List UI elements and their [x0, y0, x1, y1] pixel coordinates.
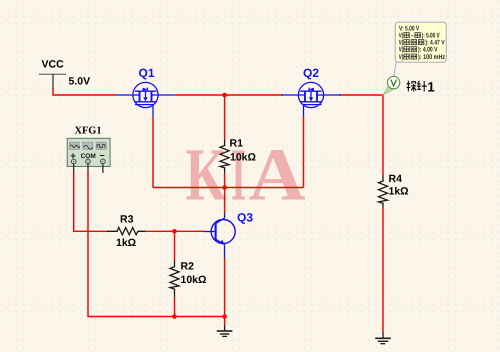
resistor R3 (horizontal) — [107, 228, 146, 235]
svg-text:5.0V: 5.0V — [69, 76, 91, 88]
svg-text:V(: V( — [399, 54, 404, 61]
junction dots — [172, 93, 227, 319]
power symbol VCC bar — [39, 73, 66, 75]
wire Q1 to Q2 — [176, 94, 283, 96]
node gate bus / R1 junction — [222, 185, 227, 190]
node emitter/ground junction — [222, 314, 227, 319]
svg-text:): 4.47 V: ): 4.47 V — [425, 40, 445, 47]
svg-text:R3: R3 — [120, 214, 134, 226]
resistor R2 (vertical) — [170, 261, 179, 298]
terminals — [71, 159, 105, 164]
wire XFG com down to bottom rail — [88, 173, 225, 317]
svg-text:R2: R2 — [181, 261, 195, 273]
wire R1 bottom to junction — [224, 173, 226, 187]
svg-text:XFG1: XFG1 — [75, 125, 102, 136]
wire Q2 to output corner and down to R4 — [339, 95, 383, 175]
wire left ground stub — [224, 317, 226, 326]
svg-text:V(: V( — [399, 47, 404, 54]
wire junction to Q3 collector — [224, 188, 226, 214]
svg-text:VCC: VCC — [42, 59, 65, 71]
transistor Q3 (NPN BJT) — [204, 213, 235, 258]
svg-text:Q2: Q2 — [303, 66, 319, 80]
XFG1 function generator — [67, 138, 110, 173]
svg-text:V(: V( — [399, 40, 404, 47]
svg-text:V: 5.00 V: V: 5.00 V — [399, 25, 420, 32]
probe leader line — [394, 62, 396, 77]
mosfet Q2 (mirrored) — [281, 82, 341, 116]
svg-text:R4: R4 — [389, 173, 403, 185]
svg-text:1: 1 — [427, 79, 435, 94]
svg-text:1kΩ: 1kΩ — [116, 237, 136, 249]
probe circle — [387, 76, 399, 88]
node R1-top rail junction — [222, 93, 227, 98]
svg-text:1kΩ: 1kΩ — [389, 186, 409, 198]
resistor R4 (vertical) — [379, 175, 388, 208]
resistor R1 (vertical) — [220, 139, 229, 173]
svg-text:K: K — [186, 134, 227, 217]
svg-text:V(: V( — [399, 33, 404, 40]
probe tail — [383, 86, 393, 96]
wire R2 bottom — [174, 297, 176, 316]
wires layer — [53, 88, 383, 332]
wire R4 bottom to ground — [382, 208, 384, 332]
wire Q1 gate down — [152, 117, 154, 188]
probe readout yellow box — [395, 22, 446, 62]
wire R2 top branch — [174, 231, 176, 260]
wire mid horizontal gate bus — [153, 187, 304, 189]
svg-text:): 4.00 V: ): 4.00 V — [418, 47, 438, 54]
ground (left, below Q3 emitter) — [217, 325, 233, 336]
svg-text:Q3: Q3 — [237, 211, 253, 225]
svg-text:): 5.00 V: ): 5.00 V — [422, 33, 440, 40]
wire R1 top branch — [224, 95, 226, 139]
three waveform buttons — [69, 142, 106, 149]
svg-text:A: A — [249, 134, 306, 217]
svg-text:10kΩ: 10kΩ — [230, 152, 256, 164]
terminal stubs — [74, 164, 103, 173]
node R2 bottom junction — [172, 314, 177, 319]
svg-text:R1: R1 — [230, 138, 244, 150]
probe label 探针1 — [407, 81, 427, 92]
svg-text:10kΩ: 10kΩ — [181, 274, 207, 286]
svg-text:Q1: Q1 — [139, 66, 155, 80]
wire Q3 emitter down — [224, 258, 226, 317]
wire VCC to Q1 — [53, 88, 116, 95]
svg-text:): 100 mHz: ): 100 mHz — [418, 54, 446, 61]
KIA watermark — [186, 134, 306, 217]
wire VCC lead — [52, 74, 54, 88]
wire Q2 gate down — [303, 117, 305, 188]
svg-text:-: - — [411, 33, 414, 40]
probe V glyph — [391, 80, 396, 86]
mosfet Q1 — [116, 82, 176, 116]
node R3/R2 junction — [172, 229, 177, 234]
ground (right, below R4) — [375, 332, 391, 344]
wire R3 right to Q3 base — [146, 230, 205, 232]
wire XFG plus down and to R3 — [74, 173, 107, 232]
